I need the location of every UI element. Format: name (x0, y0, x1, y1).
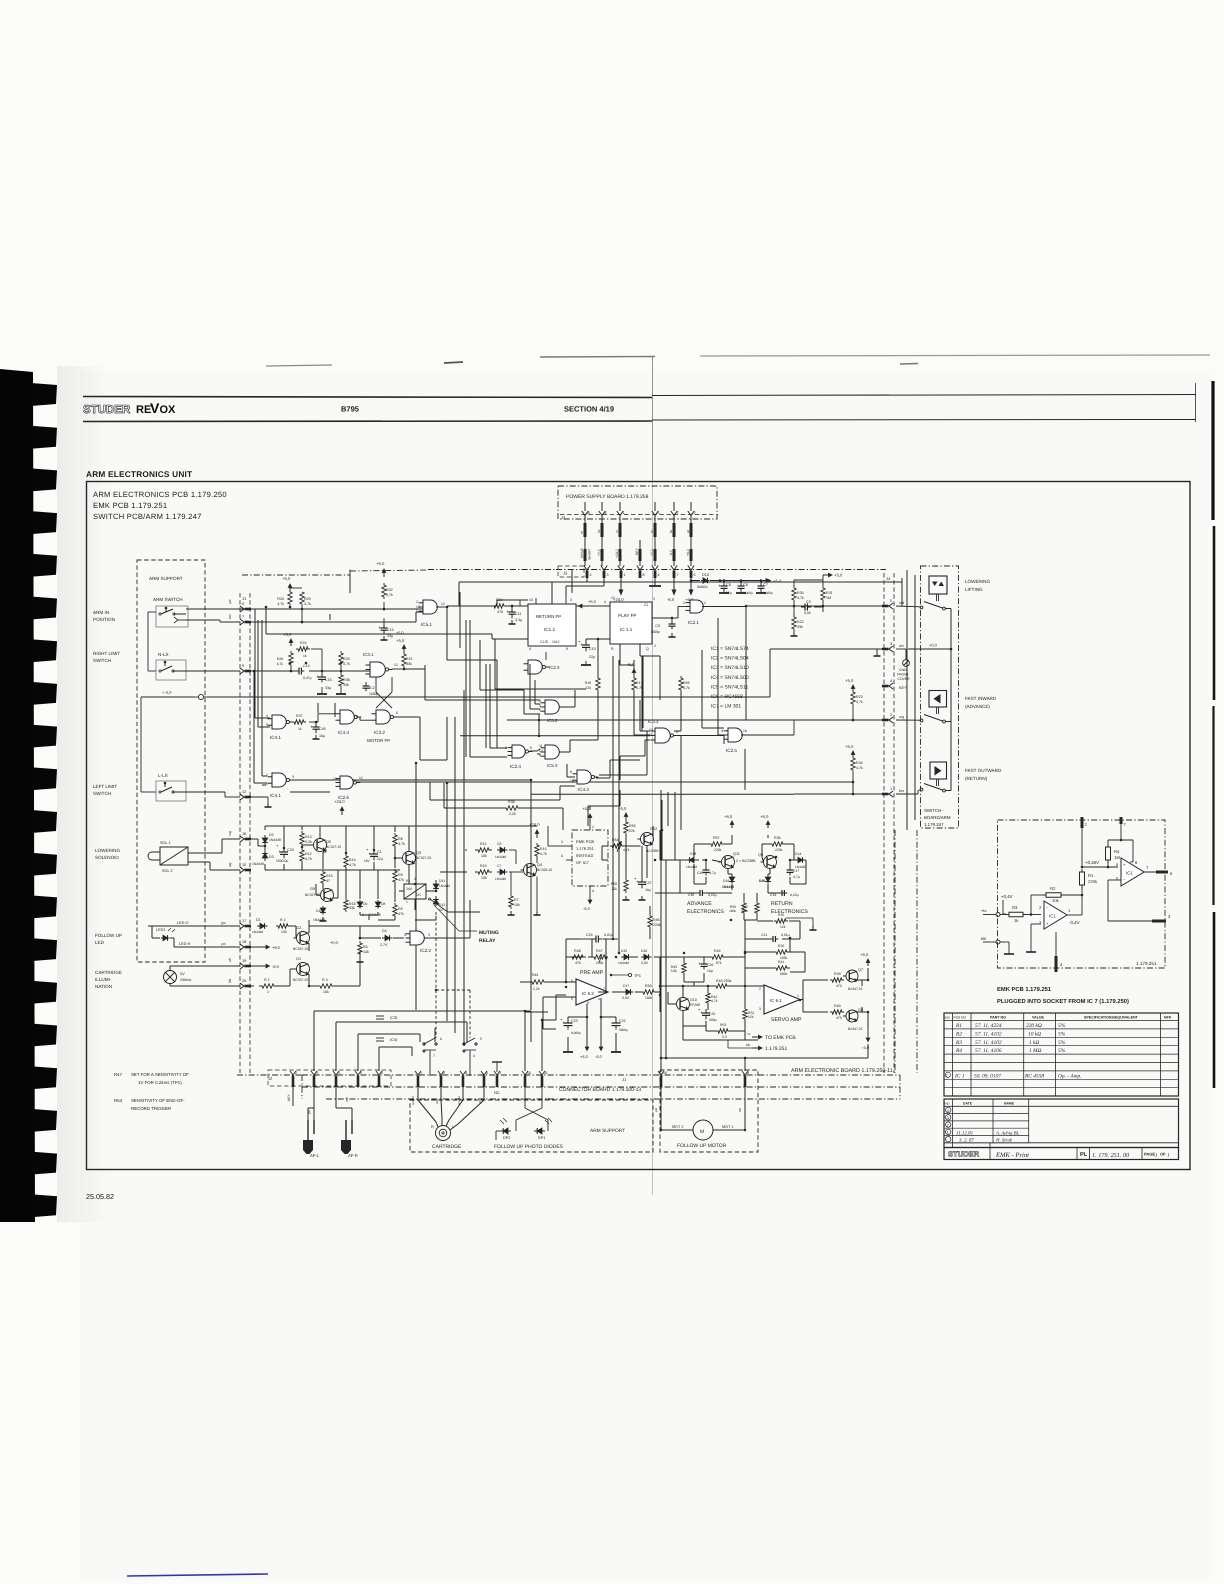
cartridge wires (417, 1087, 419, 1100)
svg-text:+0,0: +0,0 (330, 940, 339, 945)
svg-text:RIGHT LIMIT: RIGHT LIMIT (93, 651, 120, 656)
svg-text:R 3: R 3 (322, 978, 328, 982)
resistor R35 (774, 919, 788, 923)
svg-text:LED-O: LED-O (177, 921, 189, 925)
resistor R50 (640, 990, 657, 994)
svg-text:1: 1 (420, 1071, 422, 1075)
svg-text:R36: R36 (774, 836, 781, 840)
ground R58 C27 (625, 896, 627, 900)
svg-text:BC337-25: BC337-25 (848, 1027, 863, 1031)
svg-text:R31: R31 (826, 591, 833, 595)
svg-text:10k: 10k (481, 876, 487, 880)
wire IC5.1 out (436, 606, 447, 608)
capacitor C16 (383, 618, 385, 628)
arrow +6,0 return (767, 821, 769, 828)
svg-text:3: 3 (607, 573, 609, 577)
svg-text:R40: R40 (834, 1004, 841, 1008)
svg-text:C6: C6 (743, 583, 748, 587)
svg-text:1000p: 1000p (651, 630, 661, 634)
gate IC3.2 motor FF (376, 710, 390, 724)
svg-text:R1: R1 (955, 1023, 962, 1029)
svg-text:C7: C7 (497, 864, 501, 868)
svg-text:1k: 1k (303, 654, 307, 658)
svg-text:IC2 = SN74LS04: IC2 = SN74LS04 (711, 656, 749, 662)
svg-text:10: 10 (570, 779, 574, 783)
EMK instead pins (589, 814, 591, 822)
connector pin bottom 5 (481, 1071, 487, 1075)
capacitor C26 (703, 961, 705, 964)
connector J3 lower row (556, 569, 740, 571)
svg-text:57. 11. 4224: 57. 11. 4224 (975, 1023, 1002, 1029)
svg-text:D4: D4 (382, 929, 387, 933)
svg-text:R54: R54 (114, 1098, 123, 1103)
switch lowering (936, 594, 938, 601)
svg-text:+5,0: +5,0 (588, 599, 597, 604)
connector pin bottom 3 (311, 1071, 317, 1075)
gate IC5.1 (423, 600, 437, 614)
svg-text:R: R (431, 1125, 434, 1129)
svg-text:IC2.2: IC2.2 (420, 948, 431, 953)
wire N-LS bus to IC3.1 (251, 670, 296, 672)
svg-text:12: 12 (611, 596, 615, 600)
svg-text:1N4448: 1N4448 (252, 930, 263, 934)
svg-text:24V: 24V (406, 887, 413, 891)
resistor R18 (596, 676, 600, 692)
capacitor C45 (315, 722, 317, 727)
gate IC3.3 (655, 728, 670, 743)
svg-text:BC327-25: BC327-25 (326, 845, 341, 849)
svg-text:CONNECTOR BOARD 1.179.100-13: CONNECTOR BOARD 1.179.100-13 (559, 1087, 641, 1093)
svg-text:B795: B795 (341, 405, 359, 414)
svg-text:C16: C16 (387, 628, 394, 632)
svg-text:IC5.1: IC5.1 (421, 622, 432, 627)
connector J4 pin 3 (889, 646, 893, 652)
svg-text:+5,0: +5,0 (396, 631, 404, 635)
connector pin J3-4 upper (601, 502, 603, 511)
svg-text:D3: D3 (269, 855, 274, 859)
svg-text:1: 1 (416, 609, 418, 613)
wire brn bus (794, 793, 884, 795)
board boundary dash-dot top (740, 569, 886, 571)
svg-text:blk: blk (228, 978, 232, 983)
svg-text:5: 5 (480, 1037, 482, 1041)
svg-text:PART NO: PART NO (990, 1016, 1006, 1020)
svg-text:5V: 5V (180, 972, 185, 976)
svg-text:+5,0: +5,0 (834, 573, 843, 578)
svg-text:D9: D9 (363, 902, 367, 906)
svg-text:47k: 47k (398, 912, 404, 916)
svg-text:ADVANCE: ADVANCE (687, 901, 712, 907)
ground Q4 (536, 911, 538, 915)
wire J1-6 bus (251, 608, 423, 610)
svg-text:11.12.81: 11.12.81 (956, 1130, 973, 1136)
svg-text:R21: R21 (406, 657, 413, 661)
connector pin bottom 5 (376, 1071, 382, 1075)
capacitor C15 (321, 671, 323, 677)
svg-text:+6,0: +6,0 (686, 549, 690, 556)
svg-text:6: 6 (396, 711, 398, 715)
svg-text:4,7µ: 4,7µ (793, 875, 800, 879)
wire long verticals band (415, 763, 417, 1010)
svg-text:ELECTRONICS: ELECTRONICS (687, 909, 724, 915)
wire IC3.1 out (392, 668, 404, 670)
capacitor C14 (296, 670, 299, 672)
svg-text:SENSITIVITY OF END-OF-: SENSITIVITY OF END-OF- (131, 1098, 185, 1103)
svg-text:57. 11. 4102: 57. 11. 4102 (975, 1031, 1002, 1037)
ground C22 (611, 1051, 621, 1053)
svg-text:LEFT LIMIT: LEFT LIMIT (93, 784, 117, 789)
svg-text:LOWERING: LOWERING (965, 579, 990, 584)
resistor R22 (792, 614, 796, 632)
wire org bus (793, 720, 795, 735)
svg-text:LED-H: LED-H (179, 942, 191, 946)
svg-text:+5,0: +5,0 (376, 561, 385, 566)
svg-text:5000µ: 5000µ (619, 1028, 628, 1032)
svg-text:10k: 10k (323, 990, 329, 994)
arm support box bottom (410, 1100, 653, 1152)
svg-text:87: 87 (580, 530, 584, 534)
svg-text:130: 130 (281, 930, 287, 934)
svg-text:R35: R35 (778, 913, 784, 917)
arrow +6,0 out (867, 959, 869, 966)
svg-text:9: 9 (721, 729, 723, 733)
transistor Q10 (677, 998, 690, 1011)
inset pin 7 (1120, 817, 1123, 824)
resistor R30 (792, 585, 796, 603)
svg-text:C26: C26 (707, 963, 713, 967)
svg-text:IC4 = SN74LS00: IC4 = SN74LS00 (711, 675, 749, 681)
svg-text:10 kΩ: 10 kΩ (1028, 1031, 1041, 1037)
gate IC2.3 (528, 660, 542, 674)
svg-text:1.179.247: 1.179.247 (924, 822, 944, 827)
connector pin bottom 4 (460, 1071, 466, 1075)
junction dots (383, 608, 386, 611)
svg-text:1N4448: 1N4448 (618, 961, 629, 965)
svg-text:-6,0: -6,0 (667, 597, 675, 602)
svg-text:CARTRIDGE: CARTRIDGE (432, 1144, 462, 1150)
connector pin J3-2 (584, 566, 590, 571)
svg-text:CARTRIDGE: CARTRIDGE (95, 970, 122, 975)
svg-text:7: 7 (603, 987, 605, 991)
svg-text:8: 8 (747, 1071, 749, 1075)
svg-text:R44: R44 (714, 949, 721, 953)
wires Q4 region (465, 849, 467, 851)
wire IC3.3 input bus (460, 735, 650, 737)
inset R2 feedback (1031, 894, 1043, 896)
svg-text:47k: 47k (575, 961, 581, 965)
svg-text:C19: C19 (770, 893, 776, 897)
resistor R13 (300, 831, 304, 846)
revision table frame (944, 1099, 1179, 1148)
diode D10b (322, 906, 324, 908)
diode D11 (435, 882, 437, 884)
parts table frame (944, 1013, 1179, 1096)
pot R54 (610, 844, 624, 848)
advance return wires (731, 835, 733, 838)
svg-text:R49: R49 (532, 973, 538, 977)
svg-text:BC337-25: BC337-25 (848, 987, 863, 991)
page fold line (652, 357, 654, 1195)
svg-text:17: 17 (242, 919, 246, 923)
svg-text:SWITCH -: SWITCH - (924, 808, 945, 813)
capacitor C38 (697, 892, 700, 894)
switch board feed wires (896, 605, 920, 608)
svg-text:2: 2 (654, 644, 656, 648)
diode D18 (694, 859, 697, 861)
svg-text:R7: R7 (514, 898, 519, 902)
servo out wires (800, 999, 803, 1001)
TP1 (628, 973, 631, 976)
inset node wires (1081, 866, 1084, 869)
svg-text:red: red (345, 1097, 349, 1102)
connector J1 pin 17 (240, 923, 244, 929)
resistor R43 (713, 984, 730, 988)
svg-text:2: 2 (890, 713, 892, 717)
svg-text:5%: 5% (1058, 1031, 1066, 1037)
svg-text:STUDER: STUDER (948, 1149, 980, 1158)
svg-text:POS NO: POS NO (954, 1016, 967, 1020)
svg-text:+5,0: +5,0 (618, 806, 627, 811)
svg-text:3,3k: 3,3k (671, 969, 678, 973)
wire arm switch to J1-7 (186, 619, 220, 621)
revision circled indices (946, 1107, 951, 1112)
transistor Q4 (524, 864, 537, 877)
svg-text:33k: 33k (797, 625, 803, 629)
svg-text:3: 3 (499, 1071, 501, 1075)
power wires to J3 (584, 516, 586, 566)
svg-text:R: R (611, 647, 614, 651)
svg-text:50. 09. 0107: 50. 09. 0107 (974, 1074, 1001, 1080)
svg-text:22k: 22k (612, 887, 618, 891)
connector pin J3-8 (637, 566, 643, 571)
svg-text:wh: wh (228, 958, 232, 962)
svg-text:+0,0: +0,0 (650, 549, 654, 556)
diode D15 (621, 956, 624, 958)
svg-text:500µ: 500µ (709, 1018, 717, 1022)
svg-text:47k: 47k (398, 878, 404, 882)
resistor R16 (344, 898, 348, 912)
svg-text:R2: R2 (955, 1031, 962, 1037)
connector pin J3-3 (601, 566, 607, 571)
gate IC4.4 (340, 710, 354, 724)
svg-text:MOTOR FP: MOTOR FP (367, 738, 390, 743)
svg-text:G12: G12 (650, 827, 657, 831)
svg-text:C1: C1 (377, 850, 382, 854)
svg-text:IC1.2: IC1.2 (544, 627, 555, 632)
resistor R24 (296, 647, 310, 651)
svg-text:1N4448: 1N4448 (313, 918, 325, 922)
svg-text:33µ: 33µ (325, 686, 331, 690)
op-amp IC1a inset (1044, 901, 1067, 929)
resistor R28b (289, 651, 293, 667)
svg-text:10k: 10k (481, 854, 487, 858)
svg-text:IC4.4: IC4.4 (338, 730, 349, 735)
gate IC2.5 (728, 728, 742, 742)
svg-text:1N4448: 1N4448 (269, 838, 281, 842)
svg-text:1012: 1012 (552, 640, 560, 644)
svg-text:IC 6.1: IC 6.1 (770, 998, 782, 1003)
svg-text:220 kΩ: 220 kΩ (1026, 1023, 1042, 1029)
svg-text:A. Aebig BL: A. Aebig BL (995, 1130, 1020, 1136)
resistor R10 (475, 870, 492, 874)
switch S1 (423, 1043, 425, 1045)
connector J4 pin 1 brn (889, 791, 893, 797)
svg-text:IC5.3: IC5.3 (547, 763, 558, 768)
svg-text:18V: 18V (364, 859, 371, 863)
resistor R9 (393, 869, 397, 884)
svg-text:R15: R15 (326, 874, 333, 878)
diode D3 (264, 858, 266, 861)
ground R35 (786, 917, 813, 919)
svg-text:D18: D18 (690, 852, 696, 856)
wire to Q4 (509, 849, 516, 851)
analog wire mesh upper (251, 838, 258, 840)
capacitor C7 (760, 581, 762, 587)
resistor R16b (535, 843, 539, 858)
transistor Q9 (764, 856, 777, 869)
svg-text:R8: R8 (398, 837, 403, 841)
capacitor C19 (779, 892, 782, 894)
svg-text:IC 1: IC 1 (954, 1074, 965, 1080)
resistor R4 inset (1107, 844, 1109, 847)
resistor R55 (679, 676, 683, 692)
svg-text:2: 2 (683, 601, 685, 605)
arrow -6,0 down (673, 578, 675, 590)
svg-text:PAGE: PAGE (1144, 1152, 1155, 1157)
svg-text:(C3): (C3) (390, 1016, 398, 1020)
svg-text:8: 8 (643, 573, 645, 577)
svg-text:2: 2 (947, 1123, 949, 1127)
board border right dash-dot (916, 830, 918, 1073)
switch L-LS (156, 781, 186, 801)
connector J1 pin 6 (240, 606, 244, 612)
svg-text:4,7k: 4,7k (711, 999, 718, 1003)
svg-text:1: 1 (890, 787, 892, 791)
svg-text:10k: 10k (514, 903, 520, 907)
svg-text:R46: R46 (653, 918, 660, 922)
svg-text:3: 3 (947, 1116, 949, 1120)
svg-text:G10: G10 (690, 998, 697, 1002)
svg-text:4,7k: 4,7k (343, 662, 350, 666)
resistor R36 (769, 842, 786, 846)
svg-text:Q7: Q7 (858, 968, 863, 972)
svg-text:ARM ELECTRONICS PCB 1.179.250: ARM ELECTRONICS PCB 1.179.250 (93, 490, 227, 499)
arrow +24,0 mid (341, 807, 343, 815)
capacitor C22 (615, 1019, 617, 1023)
svg-text:4: 4 (604, 600, 606, 604)
svg-text:10µ: 10µ (645, 888, 651, 892)
svg-text:IC6 = RC4558: IC6 = RC4558 (711, 694, 743, 700)
cartridge illumination lamp (164, 971, 177, 984)
connector pin J3-7 (671, 566, 677, 571)
wire long horizontals band (459, 581, 902, 583)
svg-text:12: 12 (394, 663, 398, 667)
svg-text:SECTION 4/19: SECTION 4/19 (564, 405, 614, 414)
resistor R20b (773, 950, 790, 954)
svg-text:IC2.4: IC2.4 (510, 764, 521, 769)
svg-text:4,7k: 4,7k (305, 857, 312, 861)
svg-text:C23: C23 (571, 1019, 578, 1023)
resistor R15 (321, 870, 325, 885)
svg-text:D1: D1 (256, 918, 261, 922)
resistor R2 inset (1043, 894, 1046, 896)
svg-text:1N4448: 1N4448 (252, 862, 264, 866)
svg-text:OX: OX (160, 404, 177, 416)
svg-text:LOWERING: LOWERING (95, 848, 120, 853)
svg-text:4,7k: 4,7k (540, 852, 547, 856)
svg-text:R3: R3 (955, 1040, 962, 1046)
arrow +6,0 advance (731, 821, 733, 828)
svg-text:10: 10 (529, 598, 533, 602)
svg-text:C29: C29 (287, 848, 294, 852)
capacitor C1 (373, 850, 375, 854)
svg-text:DP1: DP1 (538, 1136, 545, 1140)
connector J1 pin 18 (240, 944, 244, 950)
connector J1 pin 15 (240, 867, 244, 873)
svg-text:2: 2 (759, 987, 761, 991)
svg-text:5: 5 (486, 1071, 488, 1075)
resistor R6 (358, 941, 362, 956)
svg-text:R3: R3 (1012, 905, 1018, 910)
connector pin J3-2 upper (690, 502, 692, 511)
svg-text:R43 220k: R43 220k (716, 979, 732, 983)
svg-text:wh: wh (899, 644, 904, 648)
svg-text:5: 5 (381, 1071, 383, 1075)
svg-text:3: 3 (890, 642, 892, 646)
svg-text:1: 1 (266, 782, 268, 786)
arrow +5,0 at IC1.2 (579, 604, 583, 608)
wire IC1.2 pin13 loop (495, 638, 528, 640)
wires R30 cluster (793, 580, 795, 585)
svg-text:IC1: IC1 (1049, 914, 1056, 919)
svg-text:22µ: 22µ (589, 655, 595, 659)
svg-text:FOLLOW UP: FOLLOW UP (95, 933, 122, 938)
svg-text:Q: Q (646, 647, 649, 651)
svg-text:BOARD/ARM: BOARD/ARM (924, 815, 951, 820)
svg-text:R38: R38 (343, 678, 350, 682)
svg-text:8: 8 (570, 770, 572, 774)
svg-text:33k: 33k (406, 662, 412, 666)
svg-text:red: red (899, 601, 904, 605)
svg-text:+0,0: +0,0 (929, 643, 938, 648)
ground C23 (563, 1051, 573, 1053)
parts table header (944, 1020, 1179, 1022)
wire IC1.2 top (535, 598, 537, 604)
svg-text:SOL 1: SOL 1 (160, 841, 171, 845)
svg-text:R11: R11 (480, 842, 486, 846)
svg-text:COVER: COVER (898, 677, 911, 681)
wire Q2 collector bus (308, 920, 310, 933)
svg-text:1: 1 (406, 900, 408, 904)
svg-text:V: V (150, 400, 160, 416)
diode D14 (795, 859, 798, 861)
svg-text:R37: R37 (296, 714, 303, 718)
svg-text:4,7k: 4,7k (856, 700, 863, 704)
wire N-LS left loop (147, 612, 149, 671)
svg-text:D14: D14 (795, 852, 801, 856)
svg-text:R5: R5 (398, 907, 403, 911)
to EMK PCB arrows (745, 1036, 758, 1038)
svg-text:brn: brn (521, 1097, 526, 1101)
header top rule (83, 397, 652, 398)
+5,0 arrow right branch (766, 579, 771, 583)
svg-text:INSTEAD: INSTEAD (576, 853, 593, 858)
svg-text:100k: 100k (729, 909, 736, 913)
connector J1 pin 19 (240, 963, 244, 969)
svg-text:PLAY FP: PLAY FP (618, 613, 636, 618)
svg-text:IC3 = SN74LS10: IC3 = SN74LS10 (711, 665, 749, 671)
resistor R57 (708, 842, 725, 846)
